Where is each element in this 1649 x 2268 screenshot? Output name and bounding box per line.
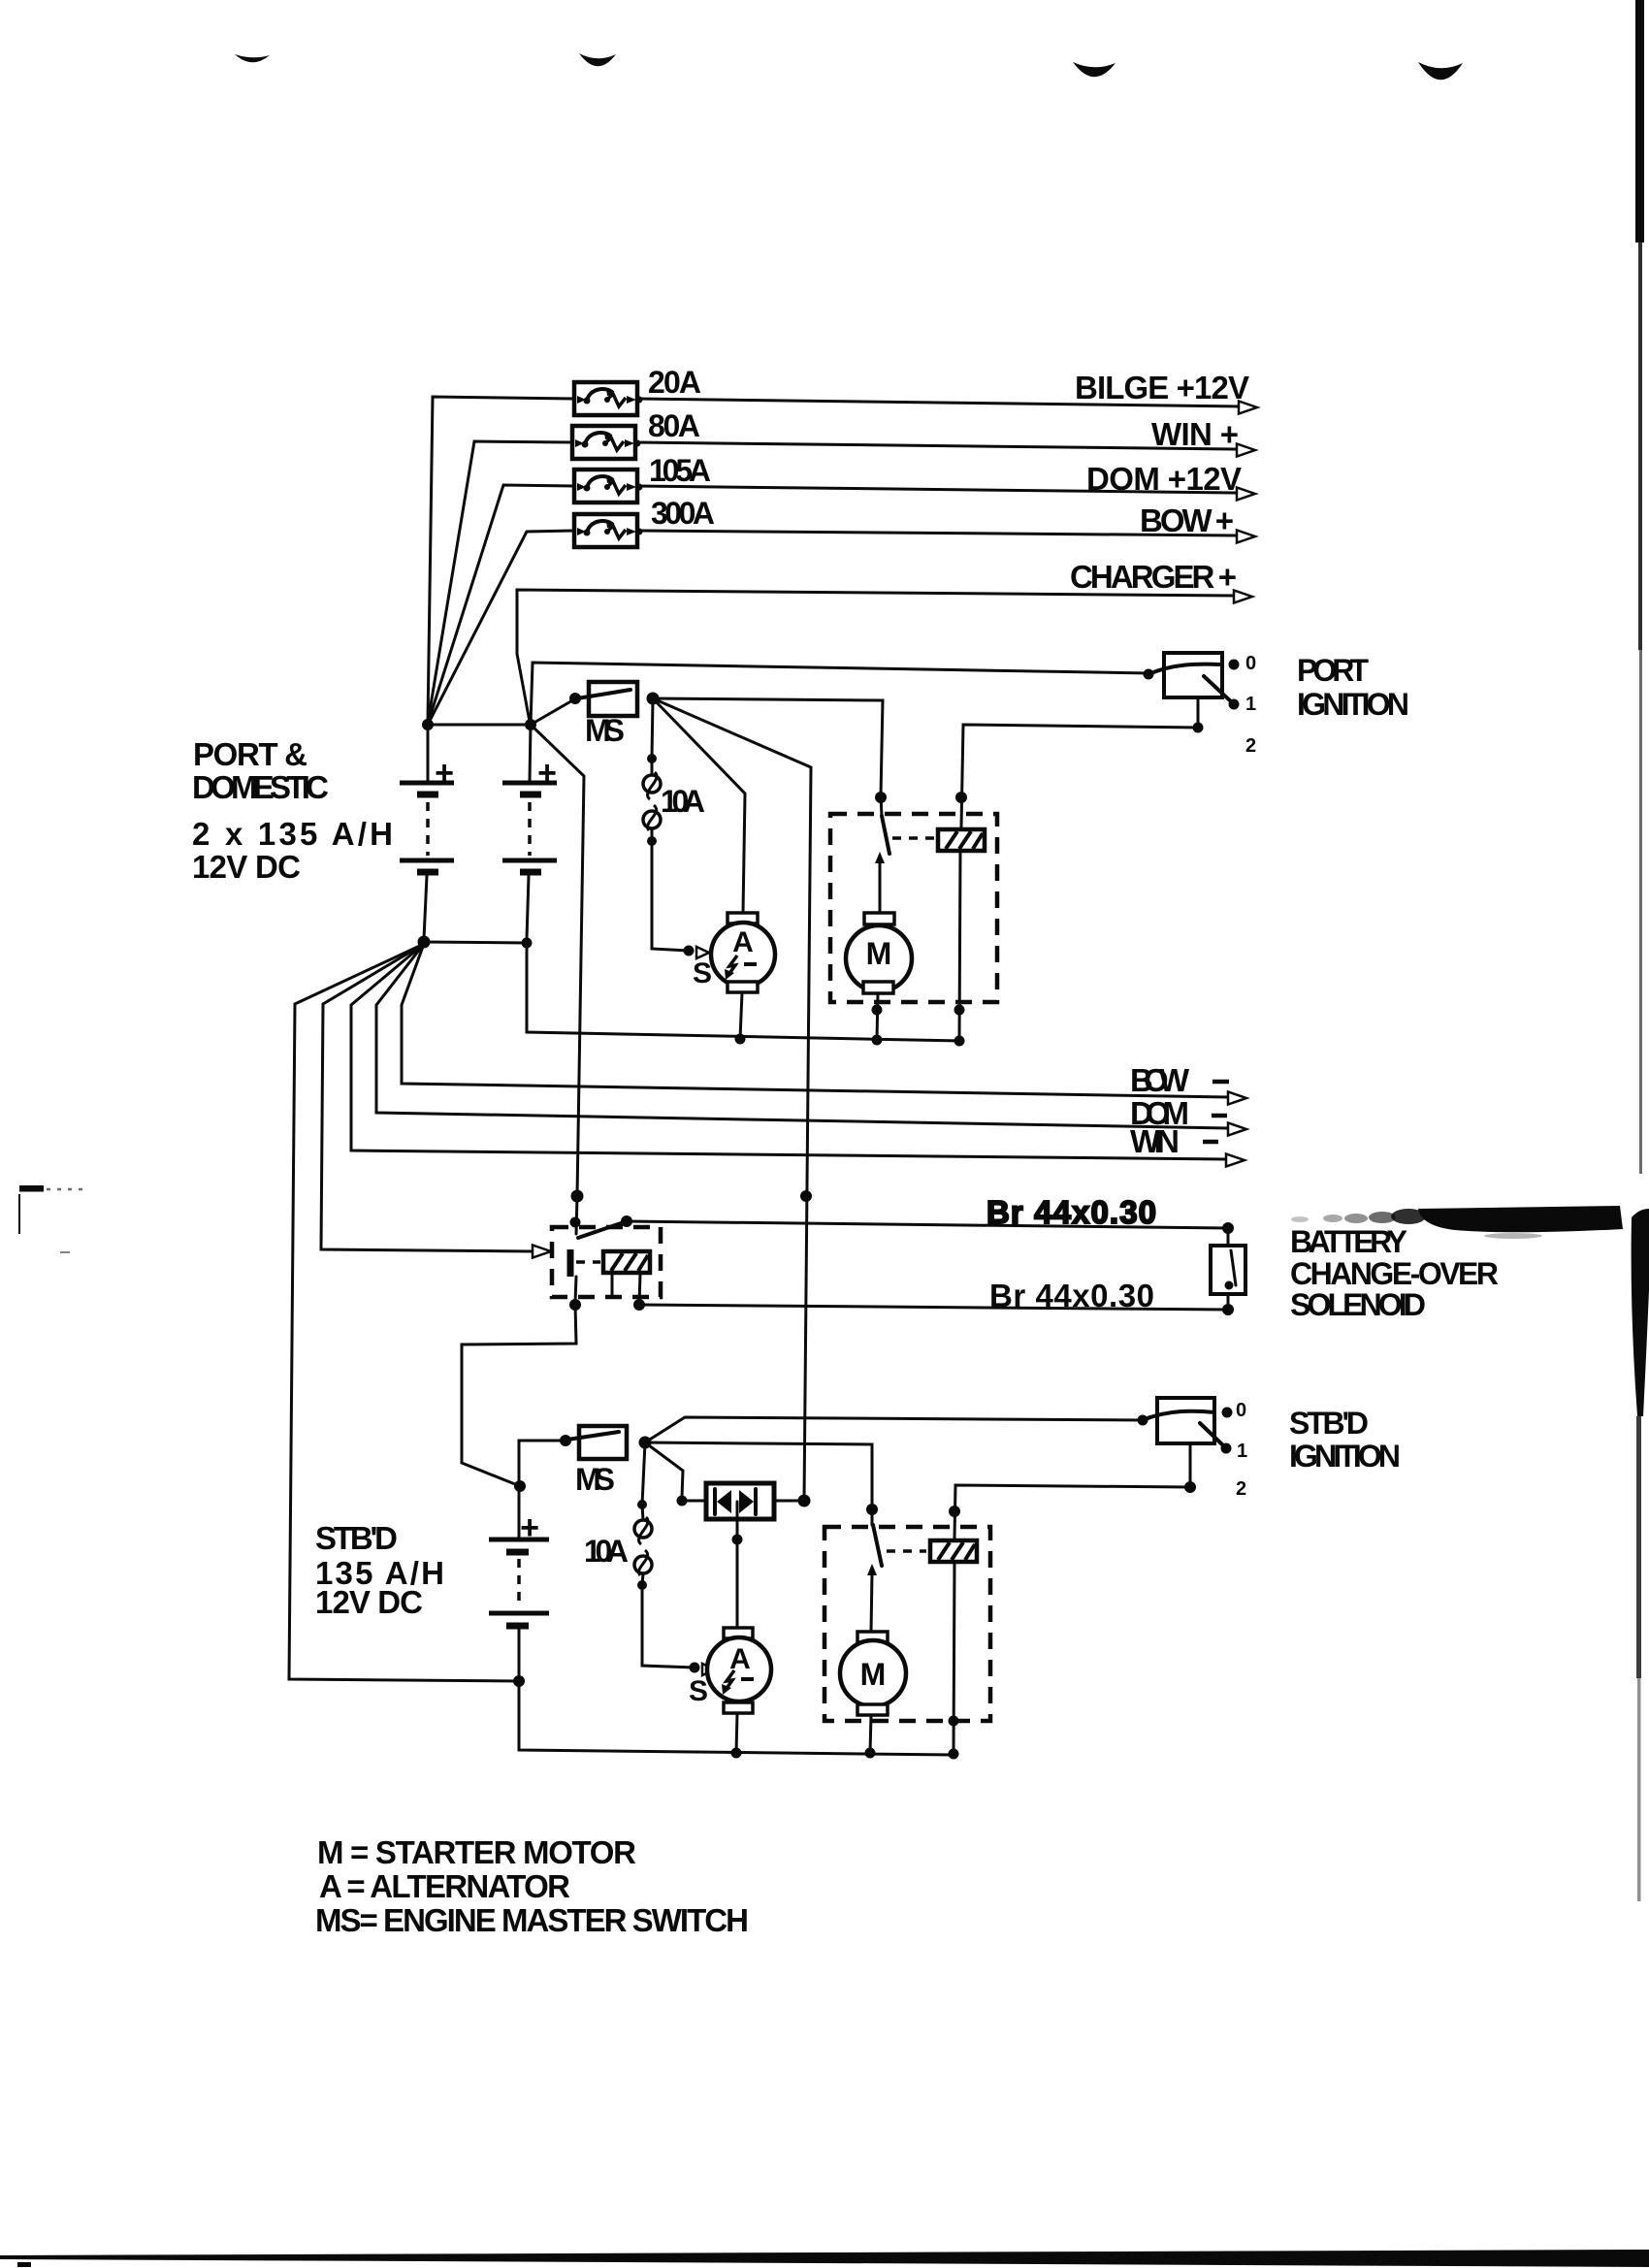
svg-text:0: 0 — [1236, 1400, 1246, 1421]
wire MS to changeover feed (long vertical) — [653, 698, 811, 1499]
node G junction (stbd MS output) — [639, 1437, 652, 1449]
wire motor to negative bus — [877, 993, 878, 1040]
fuse F5 10A port — [651, 759, 654, 775]
wire node B to port ignition switch — [531, 663, 1148, 725]
svg-text:CHARGER +: CHARGER + — [1070, 559, 1237, 595]
battery BT1 cell 2 — [400, 859, 454, 863]
svg-text:M = STARTER MOTOR: M = STARTER MOTOR — [317, 1834, 636, 1870]
wire node B to MS switch — [531, 699, 574, 725]
wire fuse F1 left to node A — [428, 397, 574, 722]
svg-text:MS: MS — [575, 1462, 615, 1497]
relay RL1 coil port — [938, 829, 985, 851]
scan artifact: right smear blob — [1632, 1209, 1649, 1416]
svg-text:BATTERY: BATTERY — [1290, 1224, 1407, 1259]
svg-text:300A: 300A — [651, 496, 715, 531]
wire relay coil to negative bus — [959, 851, 960, 1040]
svg-text:+: + — [435, 755, 454, 792]
wire MS to stbd ignition switch — [645, 1417, 1143, 1442]
svg-text:1: 1 — [1237, 1441, 1247, 1462]
scan artifact: horizontal smear over Br wire — [1418, 1206, 1623, 1232]
svg-text:BOW: BOW — [1130, 1062, 1190, 1098]
wire BOW - line — [402, 944, 1228, 1097]
node A junction — [422, 719, 434, 730]
contact K2 stbd starter solenoid contact — [871, 1509, 874, 1525]
svg-text:80A: 80A — [648, 408, 700, 443]
svg-text:Br 44x0.30: Br 44x0.30 — [986, 1194, 1156, 1230]
wire port negative to stbd battery negative — [289, 944, 519, 1681]
changeover moving contact bar — [567, 1249, 574, 1277]
node B junction — [525, 719, 536, 730]
wire MS to 10A fuse — [652, 698, 653, 759]
coil stub to box edge — [611, 1274, 614, 1297]
battery BT3 cell 2 — [489, 1611, 549, 1616]
svg-text:2: 2 — [1236, 1478, 1246, 1500]
svg-text:20A: 20A — [648, 365, 701, 400]
svg-text:WIN: WIN — [1130, 1123, 1180, 1159]
wire WIN + line — [635, 442, 1237, 449]
node C junction (port negative) — [418, 936, 431, 949]
wire ignition 1 to relay coil — [961, 697, 1198, 827]
dashed link stbd contact to coil — [887, 1549, 926, 1553]
wire Br 44x0.30 top — [627, 1221, 1228, 1228]
scan artifact: bottom bar — [0, 2250, 1649, 2267]
dashed starter box port — [830, 814, 997, 1002]
wire fuse F4 left to node A — [428, 531, 574, 725]
svg-text:SOLENOID: SOLENOID — [1290, 1287, 1426, 1322]
wire DOM +12V line — [637, 486, 1237, 493]
dashed link contact to relay coil — [892, 836, 934, 840]
wire negative bus to motor area — [527, 943, 961, 1041]
svg-text:CHANGE-OVER: CHANGE-OVER — [1290, 1256, 1499, 1291]
relay RL3 changeover coil — [603, 1251, 650, 1273]
wire 10A fuse to alternator S terminal — [652, 841, 689, 951]
dashed changeover relay box — [552, 1227, 661, 1297]
svg-text:12V DC: 12V DC — [192, 849, 301, 885]
svg-text:BOW +: BOW + — [1140, 502, 1234, 538]
svg-text:MS: MS — [585, 713, 625, 748]
svg-text:10A: 10A — [661, 784, 705, 819]
battery BT3 stbd cell 1 — [489, 1538, 549, 1542]
fuse F2 80A — [572, 426, 641, 459]
wire MS to alternator + — [653, 698, 745, 913]
scan artifact: left edge mark — [19, 1185, 44, 1192]
wire stbd ignition 1 to coil — [954, 1485, 1190, 1539]
wire node A to node B — [428, 724, 531, 727]
svg-text:A = ALTERNATOR: A = ALTERNATOR — [319, 1868, 570, 1904]
wire MS to stbd 10A fuse — [642, 1442, 645, 1505]
wire changeover common to stbd MS — [462, 1305, 576, 1486]
svg-text:M: M — [860, 1657, 887, 1692]
svg-text:1: 1 — [1245, 694, 1256, 715]
svg-text:M: M — [866, 936, 892, 971]
svg-text:+: + — [520, 1509, 539, 1546]
wire MS to starter contact — [653, 698, 883, 795]
wire port negative to changeover relay box (arrow) — [321, 944, 533, 1251]
wire stbd battery + to MS — [519, 1441, 566, 1538]
svg-text:+: + — [537, 755, 557, 792]
wire stbd motor to bus — [870, 1715, 871, 1753]
battery BT2 port/domestic cell 1 — [530, 725, 531, 781]
dashed starter box stbd — [824, 1527, 990, 1721]
svg-text:105A: 105A — [649, 453, 711, 488]
svg-text:S: S — [689, 1675, 708, 1707]
svg-text:12V DC: 12V DC — [315, 1584, 423, 1620]
diode module D1/D2 — [706, 1483, 774, 1519]
changeover contact blade — [578, 1221, 627, 1238]
svg-text:Br 44x0.30: Br 44x0.30 — [989, 1278, 1154, 1313]
wire stbd battery - to bus — [519, 1629, 954, 1755]
svg-text:S: S — [693, 957, 712, 989]
scan artifact: right edge bar — [1635, 0, 1644, 243]
wire fuse F3 left to node A — [428, 485, 574, 724]
wire CHARGER + line — [517, 590, 1234, 722]
switch SW1 port ignition — [1164, 653, 1222, 697]
wire diode box right to long vertical — [774, 1500, 804, 1503]
svg-text:IGNITION: IGNITION — [1289, 1439, 1401, 1474]
coil to bottom Br wire — [639, 1274, 640, 1304]
wire BOW + line — [637, 531, 1237, 535]
battery BT1 port/domestic cell 1 — [427, 725, 430, 781]
wire MS to stbd starter contact — [645, 1442, 872, 1507]
battery BT2 cell 2 — [502, 859, 557, 863]
solenoid SOL changeover — [1227, 1228, 1230, 1247]
wire stbd coil to bus — [954, 1562, 954, 1754]
svg-text:2: 2 — [1245, 735, 1256, 757]
wire BILGE +12V line — [637, 399, 1239, 406]
alternator A1 port — [727, 913, 758, 923]
alternator A2 stbd — [724, 1628, 753, 1638]
svg-text:PORT: PORT — [1297, 653, 1369, 688]
fuse F3 105A — [574, 470, 643, 502]
wire stbd alternator to bus — [736, 1713, 737, 1753]
wire node C to node D — [424, 942, 527, 943]
svg-text:IGNITION: IGNITION — [1297, 687, 1409, 722]
fuse F4 300A — [574, 514, 643, 547]
svg-text:10A: 10A — [584, 1534, 629, 1569]
wire DOM - line — [376, 944, 1228, 1128]
changeover contact common wire — [576, 1196, 577, 1234]
node D junction — [522, 938, 533, 949]
fuse F1 20A — [574, 382, 643, 415]
switch SW2 stbd ignition — [1157, 1398, 1214, 1443]
svg-text:DOM +12V: DOM +12V — [1086, 461, 1242, 497]
svg-text:0: 0 — [1245, 653, 1256, 674]
node E junction (MS output) — [647, 693, 660, 705]
switch MS port (engine master switch) — [589, 682, 637, 716]
node F junction stbd battery + — [514, 1480, 526, 1492]
svg-text:STB'D: STB'D — [1289, 1406, 1369, 1441]
wire fuse F2 left to node A — [428, 441, 572, 723]
contact K1 port starter solenoid contact — [881, 797, 882, 816]
fuse F6 10A stbd — [642, 1505, 643, 1520]
switch MS stbd (engine master switch) — [579, 1426, 627, 1459]
scan artifact: top binder crescents — [235, 54, 270, 62]
wire WIN - line — [351, 944, 1226, 1159]
svg-text:WIN +: WIN + — [1151, 416, 1239, 452]
svg-text:STB'D: STB'D — [315, 1520, 398, 1556]
svg-text:A: A — [732, 926, 754, 958]
wire MS to diode box — [645, 1442, 683, 1498]
wire alternator to negative bus — [740, 992, 742, 1039]
svg-text:BILGE +12V: BILGE +12V — [1075, 370, 1249, 405]
dashed link bar to coil — [576, 1260, 600, 1264]
svg-text:DOMESTIC: DOMESTIC — [192, 769, 329, 805]
wire 10A fuse to stbd alternator S — [642, 1585, 695, 1668]
wire diode center tap to alternator + — [736, 1502, 739, 1628]
svg-text:PORT &: PORT & — [193, 736, 307, 772]
wire node B to changeover common — [531, 725, 584, 1196]
motor M2 stbd starter motor — [857, 1632, 888, 1642]
motor M1 port starter motor — [864, 913, 894, 924]
wire Br 44x0.30 bottom — [639, 1305, 1228, 1310]
svg-text:MS= ENGINE MASTER SWITCH: MS= ENGINE MASTER SWITCH — [315, 1902, 749, 1938]
relay RL2 coil stbd — [930, 1540, 977, 1562]
